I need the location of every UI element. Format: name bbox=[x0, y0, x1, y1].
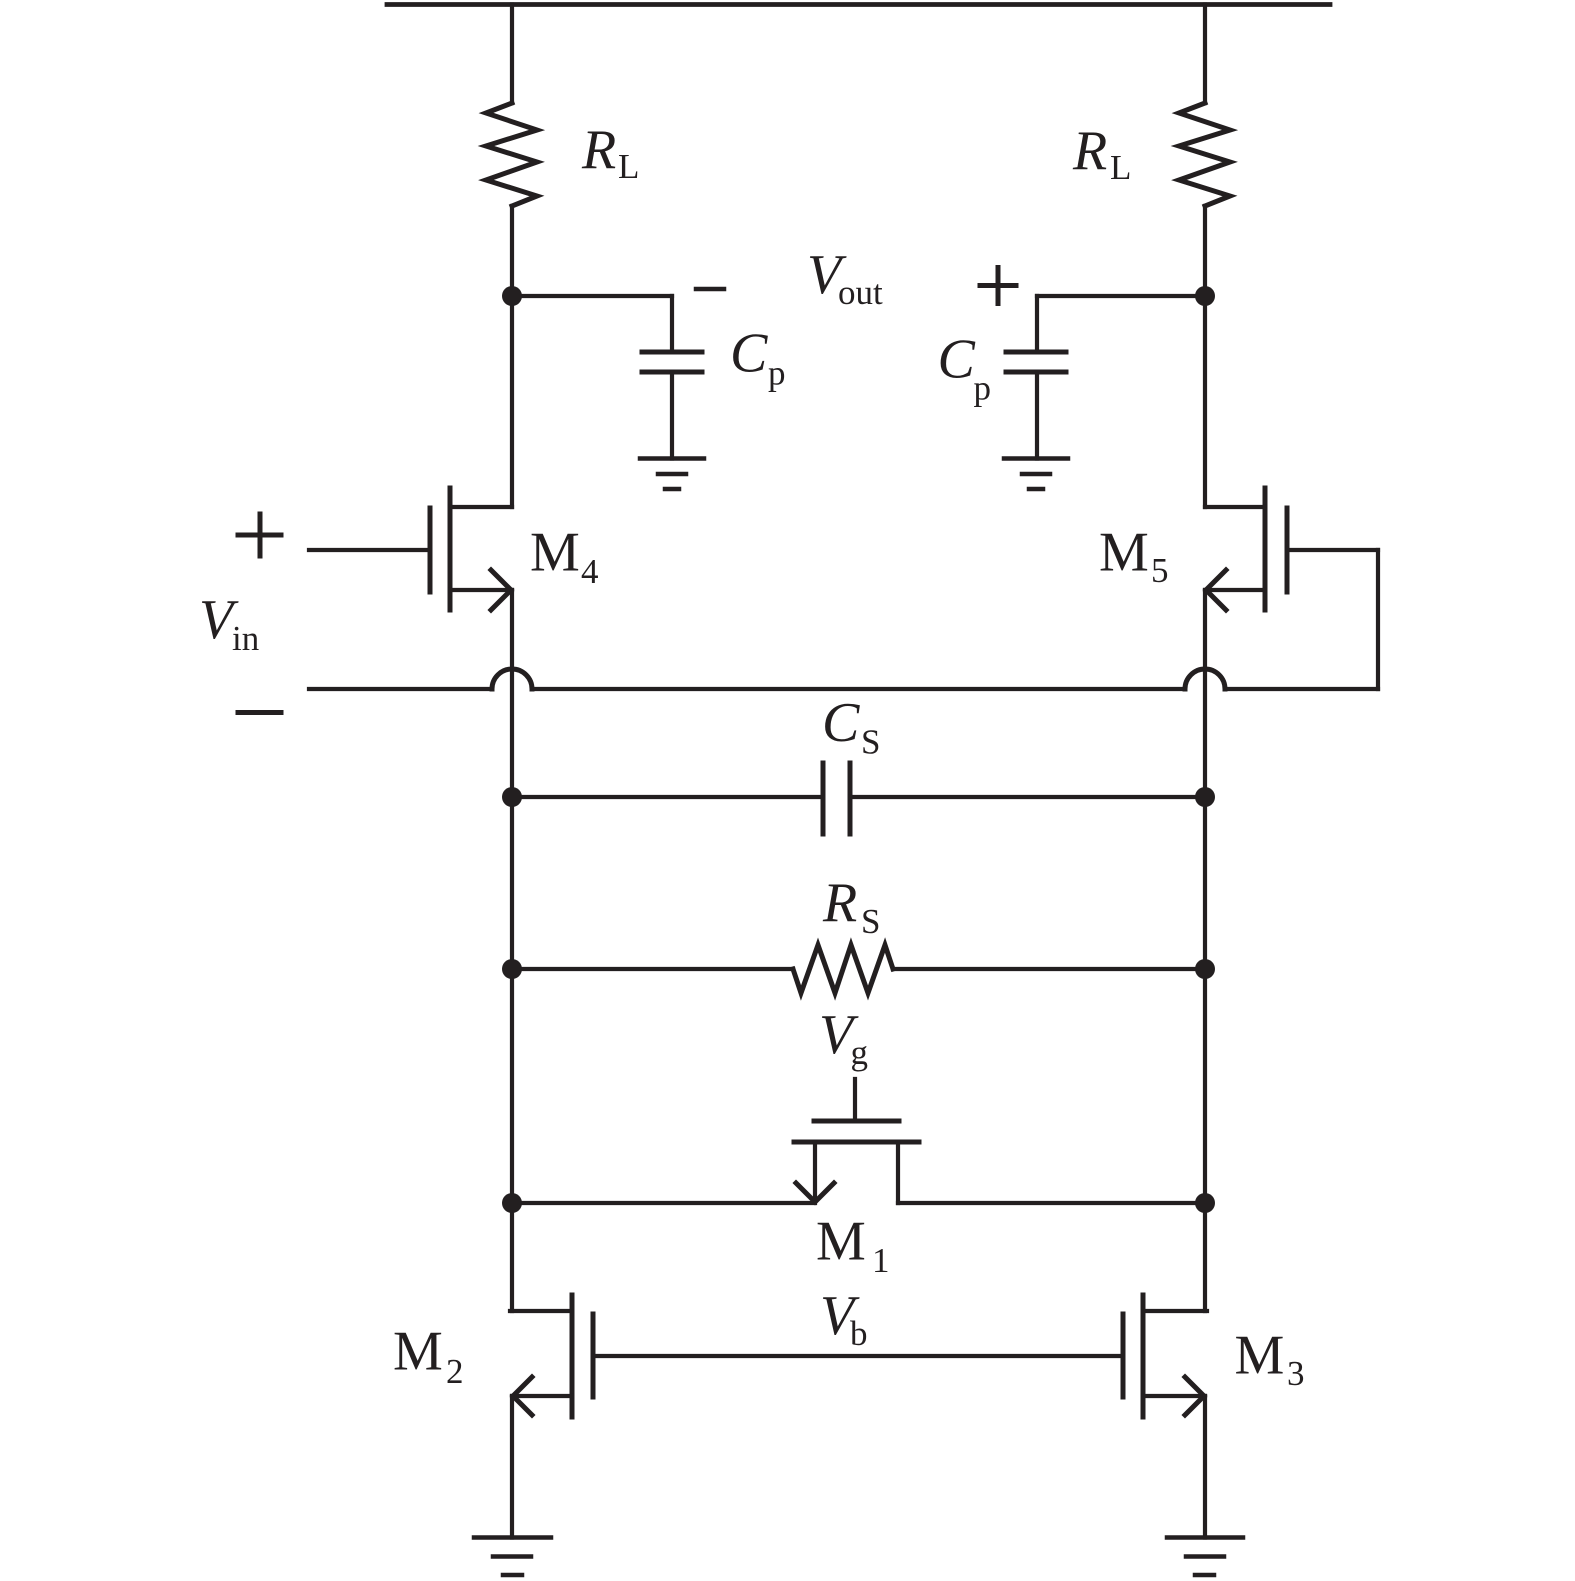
svg-text:L: L bbox=[1110, 148, 1131, 187]
svg-text:M: M bbox=[816, 1211, 866, 1273]
svg-text:C: C bbox=[822, 692, 860, 754]
svg-text:C: C bbox=[730, 323, 768, 385]
svg-text:R: R bbox=[581, 119, 616, 181]
svg-text:S: S bbox=[861, 902, 880, 941]
svg-text:R: R bbox=[822, 872, 857, 934]
svg-text:p: p bbox=[768, 354, 786, 393]
svg-text:R: R bbox=[1072, 120, 1107, 182]
svg-text:b: b bbox=[850, 1314, 868, 1353]
svg-text:3: 3 bbox=[1287, 1354, 1305, 1393]
svg-text:5: 5 bbox=[1151, 551, 1169, 590]
svg-text:M: M bbox=[393, 1321, 443, 1383]
svg-text:4: 4 bbox=[581, 552, 599, 591]
svg-text:2: 2 bbox=[446, 1352, 464, 1391]
svg-text:out: out bbox=[838, 273, 883, 312]
svg-text:M: M bbox=[530, 522, 580, 584]
svg-text:1: 1 bbox=[872, 1241, 890, 1280]
svg-text:M: M bbox=[1235, 1325, 1285, 1387]
svg-text:in: in bbox=[232, 619, 259, 658]
svg-text:C: C bbox=[938, 329, 976, 391]
svg-text:p: p bbox=[974, 369, 992, 408]
svg-text:S: S bbox=[861, 723, 880, 762]
svg-text:L: L bbox=[618, 147, 639, 186]
svg-text:g: g bbox=[851, 1033, 869, 1072]
svg-text:M: M bbox=[1099, 522, 1149, 584]
